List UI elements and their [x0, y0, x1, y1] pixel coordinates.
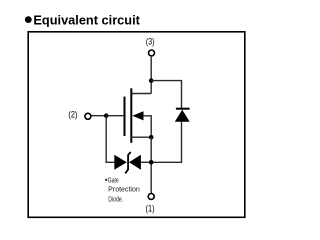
svg-text:Protection: Protection [108, 187, 140, 194]
svg-text:Gate: Gate [108, 177, 119, 184]
gate bar [124, 97, 126, 136]
zener gate protection diode [114, 152, 151, 173]
drain stub [131, 93, 151, 95]
wire source vertical [150, 137, 152, 193]
svg-text:Equivalent circuit: Equivalent circuit [33, 14, 140, 28]
body arrow [132, 111, 143, 120]
terminal (2) [85, 113, 91, 119]
border frame [28, 32, 245, 218]
source stub [131, 136, 151, 138]
svg-text:Diode.: Diode. [108, 196, 123, 203]
junction source node [149, 135, 154, 140]
junction drain node [149, 78, 154, 83]
channel bar [130, 88, 132, 143]
terminal (1) [148, 194, 154, 200]
body wire [144, 116, 152, 137]
junction gate node [104, 113, 109, 118]
junction protection node [149, 160, 154, 165]
wire gate [92, 115, 125, 117]
body diode D1 [175, 109, 190, 122]
wire gate protection branch [106, 116, 115, 163]
terminal (3) [149, 50, 155, 56]
label gate protection diode [105, 177, 140, 203]
svg-text:(2): (2) [68, 110, 77, 121]
svg-text:(3): (3) [146, 37, 155, 48]
wire body diode anode down [151, 121, 181, 162]
wire drain vertical [150, 57, 152, 94]
wire drain to body diode [151, 81, 181, 108]
title Equivalent circuit [25, 14, 141, 28]
mosfet Q1 [125, 88, 152, 143]
svg-text:(1): (1) [146, 203, 155, 214]
